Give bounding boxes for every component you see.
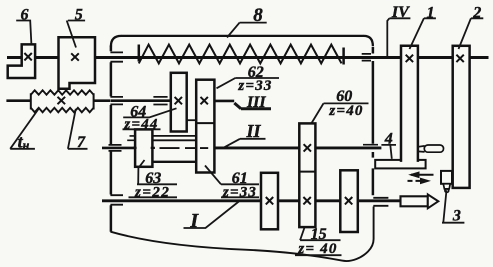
label 5 leader [67, 21, 85, 48]
label 8 leader [227, 23, 267, 38]
chuck 3 body [441, 171, 452, 184]
unit 2 cross [456, 55, 463, 62]
label 64 leader [123, 108, 177, 129]
housing left wall [110, 46, 113, 232]
svg-text:1: 1 [427, 5, 435, 22]
wire shaft II right [214, 146, 381, 149]
motor 5 cross [71, 53, 79, 60]
wire shaft II left [102, 147, 136, 150]
gear 64 z=44 body [171, 73, 187, 132]
spring 8 left end bar [138, 45, 141, 62]
gear block 62/61 body [196, 80, 214, 173]
bevel unit 1 body [401, 46, 418, 162]
heater 7 body sides [31, 93, 94, 109]
wire shaft IV [7, 56, 489, 59]
label 7 leader [68, 109, 88, 149]
svg-text:II: II [245, 121, 261, 141]
heater 7 cross [58, 97, 66, 104]
wire heater shaft right stub [94, 99, 111, 102]
gear 64 cross [175, 97, 182, 104]
gear on shaft I right cross [345, 197, 352, 204]
shaft II axis dash line [160, 147, 209, 149]
heater 7 body zigzag bottom [31, 108, 94, 113]
chuck 3 tip [445, 189, 449, 192]
handle stem [418, 146, 425, 152]
housing top-left rounded corner [111, 36, 121, 47]
chuck 3 taper [443, 184, 450, 189]
gear on shaft I left body [261, 173, 278, 230]
svg-text:I: I [189, 210, 199, 232]
gear 15 cross [303, 197, 310, 204]
sleeve left hub stubs [127, 136, 135, 140]
housing left wall bearing ticks [109, 52, 124, 204]
motor 5 body [59, 37, 96, 89]
electromagnetic clutch 6 body [8, 44, 35, 78]
housing top-right rounded corner [364, 36, 373, 46]
handle knob [424, 145, 443, 152]
svg-text:4: 4 [384, 131, 393, 148]
label 61 leader [205, 166, 259, 198]
svg-text:8: 8 [253, 5, 263, 26]
svg-text:z=44: z=44 [123, 116, 158, 132]
heater 7 body zigzag top [31, 90, 94, 94]
sliding sleeve on shaft II top lines [152, 136, 196, 140]
gear on shaft I left cross [266, 197, 273, 204]
housing top line [121, 35, 364, 37]
gear block 60/15 divider [299, 171, 315, 173]
label 2 leader [459, 18, 484, 49]
label 6 leader [16, 21, 31, 45]
label 4 leader [381, 145, 396, 159]
label 3 leader [442, 190, 464, 223]
svg-text:z=33: z=33 [222, 184, 257, 200]
spindle quill body [401, 196, 428, 206]
svg-text:7: 7 [77, 134, 86, 151]
bearing ticks left of gear 64 [153, 97, 167, 105]
wire shaft I [102, 199, 401, 202]
gear block 62/61 divider [196, 122, 214, 124]
sliding sleeve bottom line [152, 161, 196, 163]
svg-text:z=33: z=33 [237, 78, 272, 94]
clutch 6 cross [24, 53, 31, 60]
label 15 leader [295, 228, 342, 256]
shaft III right stub [214, 100, 234, 103]
unit 1 cross [406, 55, 413, 62]
housing right wall ticks shaft I [373, 198, 388, 206]
svg-text:3: 3 [452, 208, 461, 225]
gear 60 cross [304, 144, 311, 151]
svg-text:z=22: z=22 [134, 184, 170, 200]
housing right wall [372, 47, 375, 195]
spring 8 right end bar [342, 48, 345, 65]
gear 63 z=22 body [135, 129, 152, 166]
feed arrow dashed right [408, 180, 422, 182]
spindle quill tip [428, 194, 439, 208]
feed rail [375, 160, 425, 169]
svg-text:IV: IV [391, 4, 410, 21]
label 60 leader [311, 103, 369, 124]
label 63 leader [129, 160, 178, 197]
label III leader arrow [234, 103, 271, 109]
svg-text:2: 2 [472, 5, 481, 22]
spring 8 zigzag [139, 45, 342, 64]
housing right wall tick shaft II [363, 144, 378, 146]
gear on shaft I right body [340, 170, 358, 232]
housing bottom break line [111, 207, 374, 262]
label I leader [184, 202, 239, 229]
feed arrow solid left [411, 174, 434, 176]
label IV leader [387, 18, 410, 56]
gear 62 cross [201, 97, 208, 104]
label II leader [224, 139, 265, 148]
svg-text:6: 6 [21, 7, 29, 24]
svg-text:5: 5 [75, 7, 83, 24]
label tH leader [10, 108, 39, 149]
label 62 leader [217, 78, 280, 88]
svg-text:III: III [246, 94, 266, 111]
shaft II stubs at gear 63 edges [133, 147, 155, 149]
gear block 60/15 body [299, 123, 315, 227]
svg-text:z= 40: z= 40 [297, 241, 337, 257]
heater 7 body fill [32, 92, 94, 112]
label 1 leader [410, 18, 436, 49]
wire shaft III [111, 99, 172, 102]
unit 2 body [453, 46, 470, 188]
connector gear 64 to block [187, 119, 196, 121]
housing right wall bearing ticks shaft IV [362, 54, 371, 61]
svg-text:z=40: z=40 [328, 103, 363, 119]
wire heater shaft left [6, 99, 30, 102]
